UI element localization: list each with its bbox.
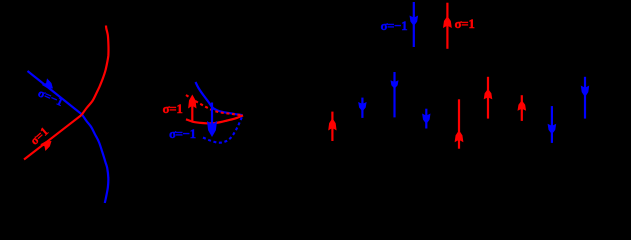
svg-text:σ=1: σ=1 — [163, 101, 183, 116]
spin 6 red up — [484, 77, 493, 119]
outgoing blue curve — [82, 115, 108, 204]
spin 7 red up — [518, 95, 527, 121]
red dashed branch curve — [186, 95, 243, 115]
outgoing red curve — [82, 26, 109, 116]
legend blue down arrow — [410, 2, 419, 47]
spin 3 blue down — [391, 72, 399, 117]
svg-text:σ=−1: σ=−1 — [381, 18, 408, 33]
wire incoming blue trajectory sigma=-1 — [28, 71, 83, 115]
label sigma=1 (left, rotated) — [27, 124, 51, 147]
spin 2 blue down — [358, 98, 366, 118]
spin 4 blue down — [422, 109, 430, 129]
arrowhead on blue incoming line — [42, 78, 56, 91]
svg-text:σ=1: σ=1 — [455, 16, 475, 31]
blue solid branch curve — [196, 82, 243, 115]
spin 1 red up — [328, 112, 336, 141]
blue dashed lower curve — [203, 116, 242, 143]
spin 8 blue down — [548, 106, 557, 143]
blue down arrow (middle figure) — [207, 103, 217, 138]
arrowhead on red incoming line — [40, 138, 54, 151]
wire incoming red trajectory sigma=1 — [24, 115, 82, 160]
legend red up arrow — [443, 3, 452, 49]
spin 5 red up — [455, 99, 464, 148]
spin 9 blue down — [581, 77, 589, 119]
red up arrow (middle figure) — [188, 95, 196, 122]
svg-text:σ=−1: σ=−1 — [169, 126, 196, 141]
red solid lower curve — [186, 115, 243, 123]
label sigma=-1 (left, rotated) — [36, 86, 66, 109]
